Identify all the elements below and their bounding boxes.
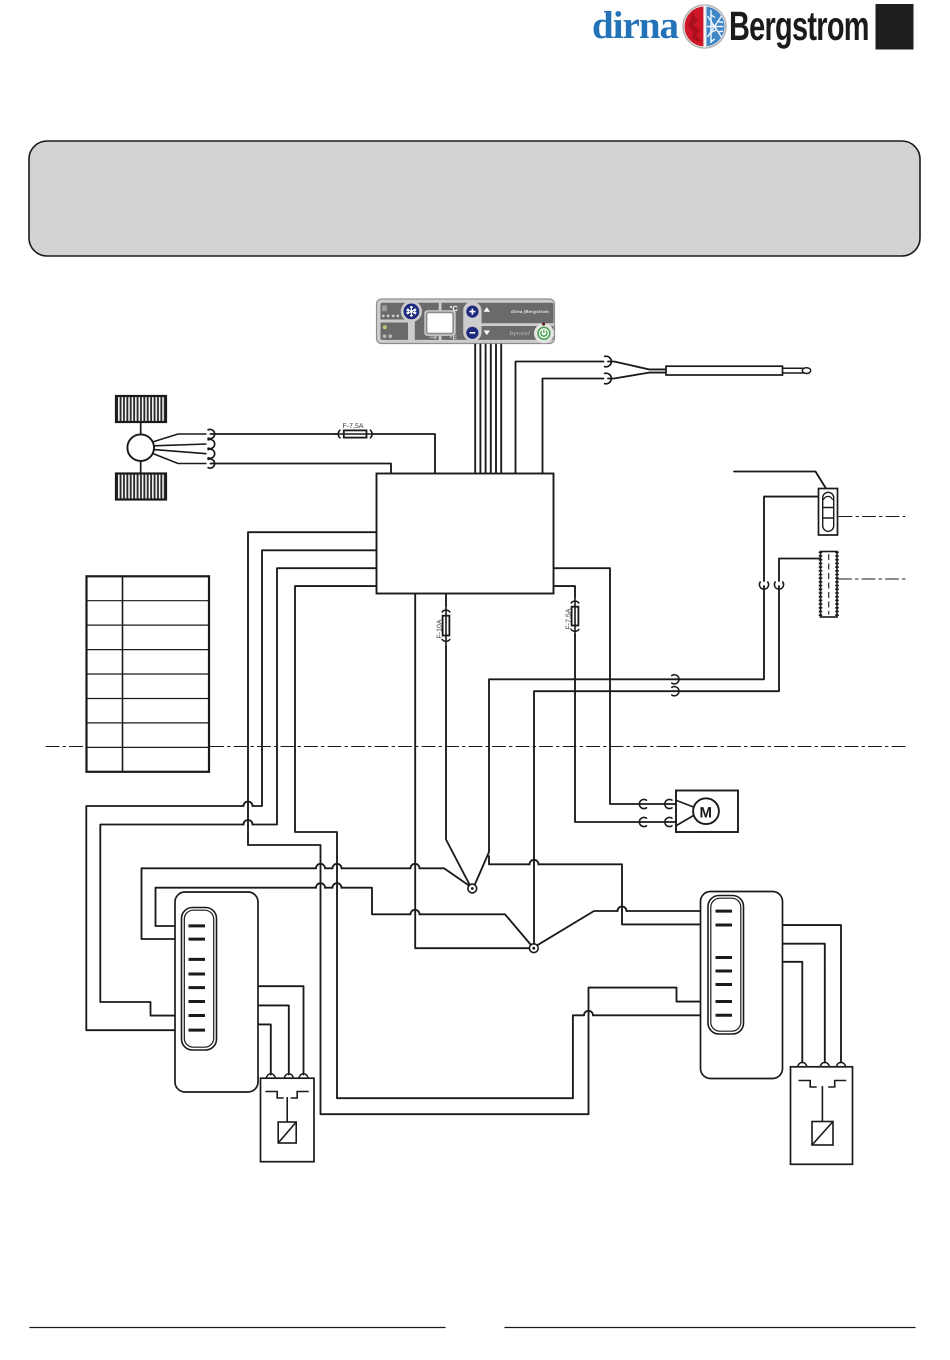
wire fan speed 1 to fuse F-7,5A [211,433,337,435]
wire left relay tick1 to ground2 [156,888,532,945]
left relay module [175,892,258,1092]
sensor connector horseshoes [605,356,612,367]
blower motor body [127,434,154,461]
thermal protector (right) [819,489,838,536]
wire ECU bottom through fuse F-10A to ground1 [445,594,447,606]
wire thermal protector to ground1 via connector [764,497,819,581]
blower wheel lower [116,474,166,500]
wire ECU pin1 to right relay (big loop) [248,532,716,1114]
blower motor assembly top-left [116,396,215,500]
blower wheel upper [116,396,166,422]
snowflake button [404,304,420,320]
dash-dot line heater element [839,578,906,580]
connector horseshoes [208,429,215,438]
wire left relay to pressure switch terminals [258,986,304,1074]
fuse F-10A vertical [436,605,450,647]
wire right relay to compressor clutch terminals [783,925,842,1062]
up/down arrows [484,307,490,312]
wire right relay tick1 to ground2 [538,911,716,945]
temperature sensor probe [666,366,811,375]
svg-text:dirna )Bergstrom: dirna )Bergstrom [511,309,549,314]
svg-text:bycool: bycool [510,330,531,337]
black square [876,4,914,50]
svg-text:°C: °C [450,304,459,313]
bottom rule right [505,1327,915,1329]
svg-text:Bergstrom: Bergstrom [729,3,869,49]
minus button [466,327,478,339]
svg-text:dirna: dirna [592,4,679,47]
condenser fan motor M [676,791,738,833]
ECU control box [377,474,554,594]
connector cups on verticals x=764 x=779 [759,582,768,589]
wire ECU bottom to ground2 [415,594,529,949]
svg-text:F-7,5A: F-7,5A [343,423,364,430]
light separators [439,302,442,342]
wire branch to right relay tick2 [489,856,716,924]
wire sensor lower [543,379,604,474]
svg-text:°F: °F [450,336,458,343]
svg-text:F-7,5A: F-7,5A [565,608,572,629]
svg-text:M: M [700,805,713,822]
wire fan speed 4 to ECU top [211,464,392,474]
right relay module [701,892,783,1079]
bycool control panel frame [377,299,555,344]
connector cups on motor wires [639,799,672,808]
display [427,312,454,333]
left pressure switch box [261,1074,315,1162]
wire bundle panel to ECU (6 wires) [475,345,501,474]
wire sensor upper [516,362,604,474]
fuse F-7,5A horizontal [334,423,373,438]
motor leads [153,434,207,464]
fuse F-7,5A vertical [565,596,579,636]
ground point 1 [468,884,477,893]
power button [538,327,550,339]
wire ECU right pin2 through fuse F-7,5A to motor [554,586,576,596]
thermal protector lead line [734,472,826,489]
ground point 2 [529,944,538,953]
svg-text:F-10A: F-10A [436,619,443,638]
blank note box [29,141,920,256]
wire left relay tick2 to ground1 [142,868,471,939]
hop arcs where wires cross [244,802,253,807]
wire ECU pin4 to right relay (inner loop) [295,586,716,1098]
dark faceplate sections [381,303,554,340]
wire ECU right pin1 to condenser motor [554,568,677,804]
dash-dot line thermal protector [839,516,905,518]
wire ECU pin3 to left relay tick7 [100,568,376,1015]
connection table [87,576,210,772]
dash-dot centre line [46,746,905,748]
wire fuse to ECU top [373,434,436,474]
plus button [466,306,478,318]
bottom rule left [30,1327,445,1329]
right compressor clutch box [791,1062,853,1164]
dirna-bergstrom logo [683,5,726,48]
wire ECU pin2 to left relay tick8 [86,550,376,1030]
motor shaft [140,422,142,474]
wire heater element to ground2 via connector [779,559,821,582]
indicator leds left [382,315,385,318]
heater element (right, hatched) [821,552,838,618]
